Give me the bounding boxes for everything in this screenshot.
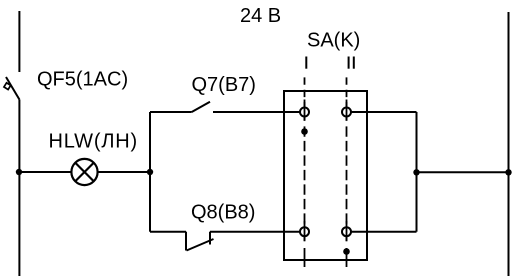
svg-text:Q8(B8): Q8(B8) <box>191 202 255 224</box>
contact Q7 wire left <box>150 111 192 113</box>
contact Q8 blade <box>187 239 214 251</box>
dash through terminal circles row2 <box>305 221 347 241</box>
contact Q8 left post <box>185 232 187 251</box>
dashed position line I <box>304 77 306 267</box>
terminal circle row2 right <box>342 227 351 236</box>
terminal circle row2 left <box>300 227 309 236</box>
terminal circle row1 left <box>300 108 309 117</box>
junction dot left rail / lamp wire <box>16 169 22 175</box>
svg-text:SA(K): SA(K) <box>307 30 360 52</box>
junction dot right rail <box>505 169 511 175</box>
svg-text:QF5(1AC): QF5(1AC) <box>37 68 128 90</box>
wire left rail upper <box>18 11 20 72</box>
contact Q7 wire right <box>213 111 300 113</box>
wire lamp left <box>19 171 71 173</box>
dashed position line II <box>346 77 348 267</box>
wire left rail lower <box>18 100 20 276</box>
wire right rail <box>508 12 510 276</box>
wire lamp right <box>98 171 150 173</box>
contact Q7 blade <box>192 102 210 112</box>
wire SA out top <box>351 111 417 113</box>
svg-text:24 В: 24 В <box>240 5 281 27</box>
wire mid branch vertical <box>149 112 151 172</box>
wire SA out bottom <box>351 231 417 233</box>
circuit breaker QF5 <box>4 77 19 100</box>
wire connector horizontal <box>417 171 509 173</box>
closure dot position II row2 <box>343 248 350 255</box>
svg-text:HLW(ЛН): HLW(ЛН) <box>49 130 138 152</box>
contact Q8 right post <box>209 232 211 245</box>
junction dot mid branch <box>147 169 153 175</box>
closure dot position I row1 <box>301 128 308 135</box>
wire right connector vertical <box>416 112 418 232</box>
switch SA box <box>284 91 367 260</box>
contact Q8 wire right <box>210 231 300 233</box>
dash through terminal circles row1 <box>305 100 347 121</box>
position marker II <box>349 57 354 69</box>
svg-text:Q7(B7): Q7(B7) <box>192 74 256 96</box>
terminal circle row1 right <box>342 108 351 117</box>
lamp HLW <box>71 159 97 185</box>
position marker I <box>305 57 307 69</box>
contact Q8 wire left <box>150 231 186 233</box>
junction dot connector <box>413 169 419 175</box>
